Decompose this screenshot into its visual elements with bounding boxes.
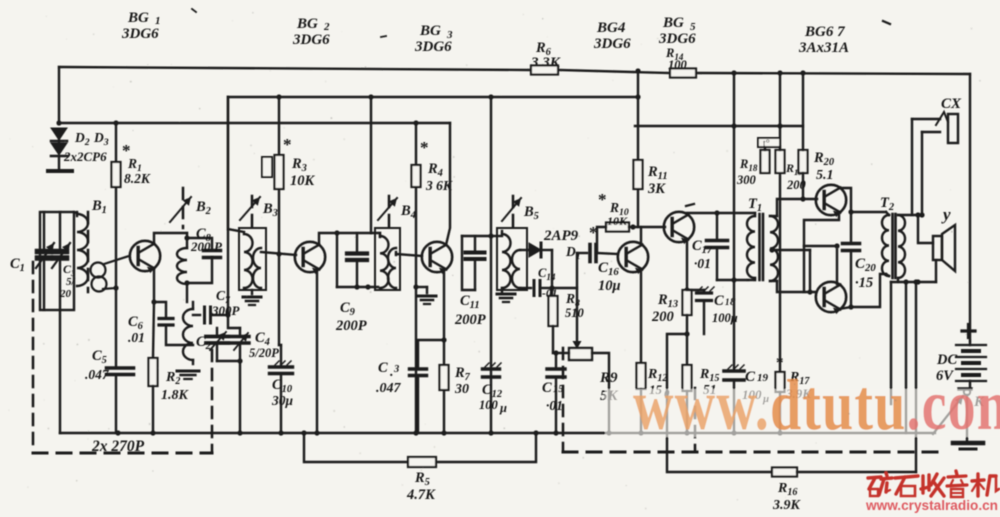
arrow B5	[502, 198, 521, 221]
watermark site name kuang-shi-shou-yin-ji	[868, 471, 999, 497]
label 3.9K (R17)	[785, 386, 812, 401]
svg-text:300P: 300P	[211, 303, 241, 318]
wire: R12 to bus	[640, 389, 642, 433]
label B3	[262, 201, 278, 219]
wire: C13 branch	[418, 340, 444, 369]
node: C2C4 bus	[237, 430, 242, 435]
label C2	[196, 334, 211, 352]
svg-text:B1: B1	[91, 198, 107, 216]
resistor R3	[262, 155, 284, 189]
svg-text:R13: R13	[657, 292, 678, 310]
label 3DG6 (BG2)	[292, 32, 330, 48]
label * R3	[283, 135, 292, 154]
switch K lever	[933, 396, 963, 434]
wire: BG7 emitter	[839, 307, 851, 309]
node: R5 right	[533, 430, 538, 435]
node: C10 bus	[278, 430, 283, 435]
svg-text:B5: B5	[523, 204, 539, 222]
svg-text:2x 270P: 2x 270P	[91, 438, 145, 455]
svg-text:·01: ·01	[546, 398, 563, 413]
svg-text:20: 20	[59, 288, 72, 300]
svg-text:5.1: 5.1	[816, 168, 834, 183]
label 3 6K	[425, 178, 453, 193]
node: C9 top tee	[334, 230, 339, 235]
svg-text:μ: μ	[499, 401, 507, 415]
label 3.9K (R16)	[772, 498, 802, 513]
label BG4	[596, 20, 626, 36]
dashed gang link bottom	[33, 452, 212, 455]
label R2	[165, 370, 180, 387]
svg-text:1.8K: 1.8K	[161, 388, 190, 403]
core dashes B3	[251, 196, 254, 226]
wire: R9 terminals	[556, 353, 609, 433]
label C5	[92, 348, 107, 366]
wire: mid rail y=126 (R11 top to R20 top)	[635, 125, 803, 127]
label BG6 7	[804, 24, 845, 40]
oscillator coil B2 top winding	[177, 233, 187, 302]
label K	[973, 394, 985, 410]
label - battery	[959, 387, 971, 391]
svg-text:3 6K: 3 6K	[425, 178, 453, 193]
label BG3	[419, 23, 453, 41]
wire: BG1 emitter down	[153, 268, 154, 358]
svg-text:10μ: 10μ	[598, 278, 621, 294]
svg-text:10K: 10K	[290, 173, 316, 189]
core dashes B1	[87, 212, 90, 292]
wire: bottom link to T2	[851, 274, 886, 307]
node: jack tap	[915, 212, 920, 217]
wire: BG4 emitter down to R12	[640, 269, 642, 363]
label R17	[789, 370, 810, 387]
node: y97-x638	[635, 94, 640, 99]
node: C14/detector	[549, 285, 554, 290]
core dashes B2	[182, 188, 185, 228]
node: R4 column tap	[413, 120, 418, 125]
transistor BG6	[816, 185, 846, 217]
svg-text:510: 510	[565, 306, 585, 320]
wire: R15 to bus	[686, 391, 688, 433]
resistor R4	[412, 165, 421, 187]
label C3 5/20	[59, 262, 76, 300]
label 10u (C16)	[598, 278, 621, 294]
label * C16	[589, 223, 598, 242]
label .01 (C6)	[128, 330, 145, 345]
node: R1/C5 bus	[115, 430, 120, 435]
label DC	[936, 352, 957, 368]
ground under B2	[177, 371, 199, 379]
svg-text:C: C	[714, 293, 724, 309]
resistor R10 with drop	[597, 223, 629, 254]
svg-text:3DG6: 3DG6	[292, 32, 330, 48]
wire: B4 secondary bottom	[416, 287, 427, 293]
dashed AGC right	[694, 388, 697, 452]
svg-text:R18: R18	[739, 157, 758, 173]
wire: BG3 collector from y123	[446, 123, 450, 245]
wire: oscillator top link	[228, 315, 240, 328]
svg-text:.01: .01	[128, 330, 145, 345]
capacitor C19 electrolytic	[724, 365, 744, 433]
wire: BG2 emitter down to bus	[316, 269, 318, 433]
label 8.2K	[124, 171, 151, 186]
shield box B4	[375, 228, 400, 290]
svg-text:R7: R7	[454, 365, 471, 383]
svg-text:B4: B4	[400, 203, 416, 221]
resistor R6 in rail	[531, 66, 558, 75]
node: screen rail feed	[635, 68, 640, 73]
label T2	[880, 195, 894, 213]
wire: BG2 collector loop	[319, 233, 371, 245]
ground under switch	[953, 443, 983, 449]
resistor R5	[408, 457, 436, 467]
resistor R1	[112, 162, 121, 187]
svg-text:CX: CX	[941, 96, 962, 112]
wire: riser x=371 rail to IF2 line	[370, 97, 372, 233]
dashed AGC box left	[562, 348, 565, 452]
label R12	[647, 367, 667, 384]
transistor BG3	[422, 242, 452, 274]
label 200 (R13)	[651, 309, 674, 325]
resistor R14 in rail	[670, 69, 696, 78]
diode D2	[51, 128, 67, 141]
svg-text:2x2CP6: 2x2CP6	[63, 149, 107, 164]
label C14	[538, 266, 556, 282]
resistor R17	[776, 372, 785, 392]
node: C13 branch	[441, 337, 446, 342]
label 100 (R14)	[668, 58, 688, 72]
node: C8 top	[184, 235, 189, 240]
node: R4 bottom tee	[413, 284, 418, 289]
wire: BG3 emitter down	[443, 269, 445, 433]
svg-text:3DG6: 3DG6	[658, 31, 696, 47]
resistor R16	[772, 468, 797, 477]
svg-text:R16: R16	[777, 481, 798, 498]
wire: BG5 emitter down	[686, 239, 688, 290]
label BG1	[127, 10, 161, 27]
frame of tuning gang C1	[40, 212, 74, 310]
svg-text:R5: R5	[414, 470, 430, 488]
svg-text:200P: 200P	[335, 318, 367, 334]
diode D3	[51, 143, 67, 170]
resistor R8	[549, 296, 558, 326]
resistor R15	[683, 365, 692, 391]
transistor BG1	[130, 241, 160, 273]
capacitor C16 coupling	[577, 245, 618, 289]
label D2 D3	[74, 130, 109, 148]
label .01 (C15)	[546, 398, 563, 413]
svg-text:3Ax31A: 3Ax31A	[798, 40, 849, 56]
wire: R16 feedback riser	[913, 279, 918, 472]
wire: T2 primary top	[851, 211, 886, 213]
node: BG7 collector tee	[834, 243, 839, 248]
ground under B3	[243, 290, 261, 305]
core dashes B4	[388, 196, 391, 226]
wire: drop x=228 from y=97 rail to oscillator	[227, 97, 229, 316]
label 30 (R7)	[454, 382, 469, 397]
wire: B5 primary bottom to ground	[501, 288, 503, 292]
ground under D2 D3	[48, 140, 72, 171]
label 300 (R18)	[736, 173, 757, 187]
svg-text:·15: ·15	[855, 275, 873, 291]
wire: R17 to bus	[779, 392, 781, 433]
label R19 200	[785, 161, 807, 192]
loudspeaker Y	[933, 225, 955, 271]
wire: riser x=491 down to ground bus	[490, 97, 492, 433]
node: R5 left	[301, 430, 306, 435]
wire: descender b	[905, 282, 907, 433]
svg-text:10K: 10K	[607, 214, 628, 228]
label R13	[657, 292, 678, 310]
node: B4 riser tap	[368, 94, 373, 99]
resistor R11	[634, 160, 643, 189]
wire: center tap stub	[772, 250, 813, 295]
svg-text:t°: t°	[763, 139, 770, 150]
resistor R18 with thermistor link	[758, 138, 780, 173]
svg-text:5/: 5/	[66, 276, 76, 288]
label 1.8K	[161, 388, 190, 403]
node: B5 riser tap	[488, 94, 493, 99]
wire: T2 sec bottom line	[891, 278, 936, 285]
wire: right edge from rail down to battery	[969, 74, 971, 341]
label R9	[599, 370, 618, 386]
node: R3 rail tap	[276, 94, 281, 99]
wire: jack feed lines	[912, 119, 925, 218]
label R4	[427, 161, 443, 179]
label 100u (C18)	[712, 311, 738, 325]
wire: frame top to B1	[74, 212, 77, 213]
capacitor C11 with loop	[462, 236, 491, 290]
label CX	[941, 96, 962, 112]
node: B1 secondary to R1 line	[113, 285, 118, 290]
label 2AP9	[543, 228, 579, 244]
svg-text:300: 300	[736, 173, 757, 187]
svg-text:y: y	[941, 205, 951, 224]
wire: second horizontal line y=123	[59, 122, 450, 124]
label + battery	[962, 325, 975, 338]
node: T2 top tap	[848, 209, 853, 214]
capacitor C18 electrolytic	[687, 287, 714, 334]
wire: C9 bottom link	[337, 286, 378, 288]
node: C9 bottom	[354, 284, 359, 289]
svg-text:R4: R4	[427, 161, 443, 179]
label .047 (C5)	[85, 367, 110, 382]
IF transformer B4 secondary	[388, 248, 396, 288]
node: C19 rail	[731, 70, 736, 75]
resistor R2	[149, 358, 158, 386]
label 10K (R10)	[607, 214, 628, 228]
output transformer T2 secondary	[898, 215, 905, 278]
label C4	[255, 330, 270, 348]
svg-text:3DG6: 3DG6	[121, 26, 159, 42]
driver transformer T1 secondary	[770, 216, 778, 281]
scan stray mark b	[883, 21, 890, 24]
watermark www.dtutu.com	[633, 364, 1000, 444]
label R18	[739, 157, 758, 173]
core T1	[760, 214, 764, 280]
svg-text:D3: D3	[93, 130, 109, 148]
label C15	[542, 380, 564, 396]
label * R10	[598, 190, 607, 209]
variable capacitor C3 section b	[52, 212, 70, 310]
svg-text:100: 100	[479, 398, 499, 412]
label 3.3K	[530, 55, 561, 71]
svg-text:.: .	[390, 365, 394, 380]
label R8	[565, 291, 580, 309]
label C9	[340, 300, 356, 318]
scan stray mark c	[381, 36, 386, 37]
label 5.1 (R20)	[816, 168, 834, 183]
label .01 (C14)	[542, 288, 557, 300]
diode D1 2AP9	[520, 243, 552, 257]
wire: speaker return	[935, 260, 937, 282]
capacitor C9	[347, 233, 367, 287]
wire: B4 primary top stub	[371, 233, 380, 236]
svg-text:R2: R2	[165, 370, 180, 387]
svg-text:R20: R20	[813, 150, 835, 168]
IF transformer B3 primary	[244, 234, 253, 288]
svg-text:P: P	[214, 239, 223, 254]
svg-text:www.dtutu.com: www.dtutu.com	[633, 364, 1000, 444]
svg-text:5/20P: 5/20P	[249, 346, 279, 360]
label * R17	[776, 355, 784, 371]
svg-text:.047: .047	[85, 367, 110, 382]
node: R9 right bus	[606, 430, 611, 435]
svg-text:*: *	[283, 135, 292, 154]
svg-text:B3: B3	[262, 201, 278, 219]
trimmer capacitor C4	[231, 328, 249, 361]
label 6V	[936, 368, 954, 384]
capacitor C10 electrolytic	[270, 345, 293, 433]
label T1	[748, 196, 762, 214]
label 10K	[290, 173, 316, 189]
wire: descender a	[890, 282, 892, 404]
node: mid-rail x=734	[731, 123, 736, 128]
label 3DG6 (BG3)	[414, 39, 452, 55]
label 3AX31A	[798, 40, 849, 56]
node: C15 bus	[553, 430, 558, 435]
wire: BG1 collector up to B2	[154, 233, 187, 244]
label B5	[523, 204, 539, 222]
capacitor C14	[520, 281, 552, 296]
svg-text:BG: BG	[662, 15, 684, 31]
svg-text:C11: C11	[460, 293, 480, 311]
resistor R13	[683, 290, 692, 315]
resistor R12	[637, 363, 646, 389]
label R15	[699, 367, 719, 384]
label C7	[216, 288, 231, 306]
label 510 (R8)	[565, 306, 585, 320]
label 3DG6 (BG1)	[121, 26, 159, 42]
node: R12 bus	[638, 430, 643, 435]
label BG5	[662, 15, 696, 33]
wire: detector to volume	[552, 288, 577, 341]
svg-text:1: 1	[725, 297, 730, 307]
node: R17 bus	[777, 430, 782, 435]
arrow B4	[378, 198, 397, 220]
shield box B5	[497, 228, 527, 290]
label C8	[196, 226, 212, 244]
transistor BG2	[295, 242, 325, 274]
label R5	[414, 470, 430, 488]
svg-text:C5: C5	[92, 348, 107, 366]
transistor BG5	[664, 212, 694, 244]
capacitor C5	[107, 368, 134, 375]
node: C11 top	[488, 233, 493, 238]
svg-text:8.2K: 8.2K	[124, 171, 151, 186]
label .047 (C13)	[376, 381, 402, 396]
wire: R5 loop	[304, 433, 536, 462]
label R7	[454, 365, 471, 383]
wire: R1 column	[115, 123, 117, 433]
wire: C9 drop	[336, 233, 338, 287]
label 200P (C8)	[190, 239, 223, 254]
svg-text:D2: D2	[74, 130, 90, 148]
wire: T1 sec bottom to BG7 base	[777, 281, 816, 292]
label R3	[291, 156, 307, 174]
resistor R19	[776, 150, 785, 173]
label .01 (C17)	[694, 256, 711, 271]
capacitor C20	[843, 244, 860, 251]
node: R2 bus	[150, 430, 155, 435]
node: C17 top	[714, 210, 719, 215]
wire: B3 primary top	[228, 97, 244, 232]
capacitor C15	[547, 353, 565, 433]
capacitor C13	[410, 369, 427, 433]
wire: R16 right	[797, 471, 916, 473]
label R6	[535, 40, 552, 58]
label C16	[598, 260, 619, 278]
wire: drop x=638 from top rail through y=97 to R11	[637, 71, 639, 160]
label 200P (C11)	[454, 312, 486, 328]
label C20	[855, 256, 876, 274]
IF transformer B5 secondary	[512, 250, 520, 288]
ground under B5	[497, 294, 515, 302]
svg-text:30: 30	[454, 382, 469, 397]
svg-text:C: C	[542, 380, 552, 396]
watermark url crystalradio	[865, 497, 998, 513]
svg-text:R11: R11	[647, 164, 668, 182]
svg-text:B2: B2	[195, 199, 211, 217]
node: BG3 emitter bus	[441, 430, 446, 435]
wire: top supply rail	[59, 67, 970, 74]
ground under B4	[418, 296, 436, 304]
node: BG2 emitter bus	[314, 430, 319, 435]
wire: C2 C4 junction to bus	[217, 361, 240, 433]
label C18	[714, 293, 736, 309]
wire: left drop from rail to diode node	[58, 67, 60, 124]
scan stray mark d	[192, 9, 196, 12]
antenna coil B1 secondary	[91, 256, 130, 292]
svg-text:www.crystalradio.cn: www.crystalradio.cn	[865, 497, 998, 513]
wire: BG6 collector	[839, 188, 851, 243]
node: R8/C15/R9	[553, 350, 558, 355]
capacitor C6	[159, 319, 173, 326]
label C6	[128, 314, 144, 332]
label 3DG6 (BG5)	[658, 31, 696, 47]
label 100u (C19)	[742, 387, 769, 405]
node: C9 bottom b	[365, 284, 370, 289]
scan stray mark a	[686, 204, 694, 206]
node: C2C4 join	[237, 358, 242, 363]
label 4.7K (R5)	[406, 487, 436, 503]
node: R4 bus	[413, 430, 418, 435]
svg-text:T2: T2	[880, 195, 894, 213]
svg-text:3DG6: 3DG6	[414, 39, 452, 55]
svg-text:C20: C20	[855, 256, 876, 274]
core T2	[893, 214, 896, 278]
wire: R4 column	[415, 123, 417, 433]
antenna coil B1 primary	[77, 212, 88, 286]
svg-text:4.7K: 4.7K	[406, 487, 436, 503]
